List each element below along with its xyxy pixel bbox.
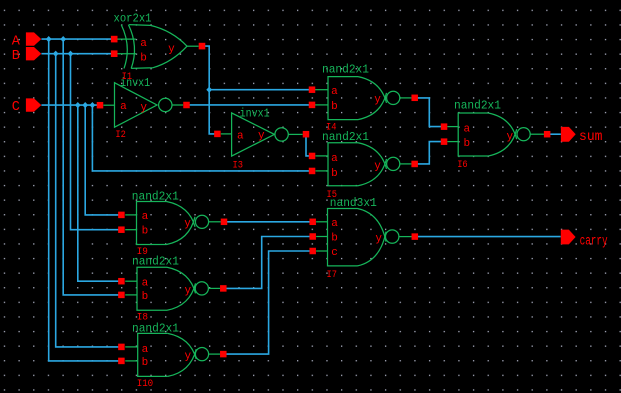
junction C branch 2	[82, 102, 88, 108]
svg-text:B: B	[12, 49, 20, 64]
svg-text:a: a	[331, 86, 338, 98]
svg-text:y: y	[507, 131, 514, 143]
pin square I7 c	[309, 248, 316, 255]
nand3 I7 input stub a	[316, 221, 327, 223]
nand2 I4 output stub	[400, 97, 412, 99]
svg-text:a: a	[140, 38, 147, 50]
inverter I3 output stub	[288, 133, 302, 135]
pin square I6 y	[544, 131, 551, 138]
pin square I8 a	[118, 278, 125, 285]
svg-text:y: y	[374, 94, 381, 106]
nand2 I6 output stub	[530, 133, 544, 135]
nand3 I7 bubble	[386, 230, 399, 243]
svg-text:invx1: invx1	[240, 106, 270, 120]
pin square xor b	[111, 50, 118, 57]
svg-text:y: y	[375, 233, 382, 245]
wire I3 output down to I5 pin a	[306, 134, 312, 156]
svg-text:b: b	[331, 168, 338, 180]
wire B to xor b	[41, 53, 114, 55]
wire xor output down to I3 input	[202, 46, 217, 134]
junction xor output branch	[206, 87, 212, 93]
nand2 I4 input stub b	[315, 104, 328, 106]
svg-text:a: a	[237, 131, 244, 143]
xor output stub	[187, 45, 199, 47]
junction A branch 2	[60, 36, 66, 42]
svg-text:I7: I7	[327, 269, 338, 281]
wire A branch down to I10 pin b	[49, 39, 122, 361]
input pin B	[26, 47, 41, 60]
svg-text:b: b	[331, 233, 338, 245]
svg-text:I3: I3	[233, 159, 244, 171]
pin square I2 in	[97, 102, 104, 109]
svg-text:I10: I10	[137, 378, 154, 390]
pin square I3 in	[214, 131, 221, 138]
inverter I2 bubble	[159, 98, 172, 111]
svg-text:y: y	[185, 350, 192, 362]
svg-text:a: a	[120, 101, 127, 113]
nand2 I5 input stub a	[316, 155, 329, 157]
nand2 gate I6 body	[458, 113, 488, 156]
svg-text:b: b	[142, 226, 149, 238]
svg-text:b: b	[142, 291, 149, 303]
pin square I8 y	[220, 285, 227, 292]
pin square I5 y	[411, 161, 418, 168]
output pin sum	[561, 127, 576, 142]
wire C branch down to I8 pin a	[78, 105, 122, 281]
svg-text:a: a	[142, 211, 149, 223]
pin square I10 b	[118, 358, 125, 365]
xor input stub b	[118, 53, 137, 55]
inverter I2 input stub	[103, 104, 114, 106]
wire C branch down to I9 pin a	[85, 105, 121, 215]
nand2 I5 bubble	[387, 157, 400, 170]
pin square I10 a	[118, 344, 125, 351]
nand2 gate I5 body	[328, 143, 358, 186]
svg-text:a: a	[331, 218, 338, 230]
junction B branch 1	[53, 51, 59, 57]
pin square I6 a	[441, 123, 448, 129]
pin square I9 a	[118, 212, 125, 219]
nand2 I10 input stub b	[125, 360, 138, 362]
nand2 I6 input stub a	[447, 126, 458, 128]
nand2 gate I9 body	[137, 202, 167, 245]
svg-text:I4: I4	[326, 122, 337, 134]
xor gate I1 body	[128, 25, 134, 69]
inverter I2 triangle	[115, 83, 158, 128]
pin square I7 y	[412, 233, 419, 240]
pin square I2 out	[183, 102, 190, 109]
svg-text:A: A	[12, 34, 21, 49]
xor input stub a	[118, 38, 136, 40]
svg-text:carry: carry	[580, 234, 608, 249]
input pin A	[26, 32, 41, 45]
svg-text:I1: I1	[122, 71, 133, 83]
wire I9 output to I7 pin a	[224, 221, 313, 223]
svg-text:I6: I6	[457, 159, 468, 171]
nand2 I4 input stub a	[315, 89, 328, 91]
inverter I3 bubble	[275, 128, 288, 141]
svg-text:a: a	[142, 344, 149, 356]
svg-text:y: y	[374, 161, 381, 173]
wire branch xor output to I4 pin a	[209, 89, 311, 91]
nand2 I5 input stub b	[316, 170, 329, 172]
wire B branch down to I9 pin b	[71, 54, 122, 230]
svg-text:I8: I8	[137, 311, 148, 323]
wire A to xor a	[41, 38, 114, 40]
svg-text:C: C	[12, 100, 20, 115]
nand2 gate I10 body	[138, 333, 168, 376]
svg-text:y: y	[168, 43, 175, 55]
inverter I2 output stub	[172, 104, 183, 106]
svg-text:b: b	[140, 53, 147, 65]
svg-text:nand2x1: nand2x1	[132, 322, 179, 336]
pin square I4 b	[309, 102, 316, 109]
nand3 I7 output stub	[399, 236, 412, 238]
svg-text:y: y	[185, 285, 192, 297]
nand2 gate I4 body	[328, 77, 358, 120]
nand3 gate I7 body	[328, 209, 358, 266]
pin square I4 y	[411, 95, 418, 102]
wire A branch down to I8 pin b	[63, 39, 121, 295]
junction B branch 2	[68, 51, 74, 57]
svg-text:a: a	[331, 153, 338, 165]
nand2 I8 bubble	[195, 282, 208, 295]
svg-text:I2: I2	[115, 129, 126, 141]
pin square I5 a	[309, 153, 316, 160]
wire I2 output to I4 pin b	[187, 104, 312, 106]
svg-text:c: c	[331, 247, 338, 259]
wire I10 output up to I7 pin c	[223, 251, 312, 354]
nand2 I8 input stub a	[125, 280, 137, 282]
pin square I6 b	[441, 138, 448, 145]
pin square I10 y	[220, 351, 227, 358]
svg-text:y: y	[184, 218, 191, 230]
nand2 I9 bubble	[195, 215, 208, 228]
svg-text:a: a	[142, 277, 149, 289]
svg-text:b: b	[331, 101, 338, 113]
wire I5 output to I6 pin b	[415, 142, 444, 164]
svg-text:a: a	[464, 124, 471, 136]
nand2 I9 input stub b	[125, 229, 136, 231]
wire C branch down to I5 pin b	[92, 105, 312, 171]
svg-text:xor2x1: xor2x1	[114, 11, 152, 25]
svg-text:I5: I5	[327, 189, 338, 201]
pin square I9 y	[221, 219, 228, 226]
svg-text:y: y	[258, 130, 265, 142]
pin square I7 a	[309, 219, 316, 226]
nand2 I10 bubble	[195, 348, 208, 361]
nand2 I6 bubble	[517, 128, 530, 141]
junction C branch 3	[90, 102, 96, 108]
nand2 I8 output stub	[208, 287, 220, 289]
inverter I3 input stub	[221, 133, 232, 135]
wire I8 output up to I7 pin b	[223, 237, 312, 289]
nand2 I5 output stub	[400, 163, 412, 165]
wire C to inverter I2 input	[41, 104, 100, 106]
svg-text:I9: I9	[137, 246, 148, 258]
svg-text:nand2x1: nand2x1	[454, 99, 501, 113]
svg-text:y: y	[140, 102, 147, 114]
wire I7 output to carry pin	[415, 236, 561, 238]
wire B branch down to I10 pin a	[56, 54, 122, 347]
junction C branch 1	[75, 102, 81, 108]
nand2 I9 output stub	[209, 221, 221, 223]
svg-text:sum: sum	[579, 130, 603, 145]
nand3 I7 input stub c	[316, 250, 327, 252]
pin square I7 b	[309, 233, 316, 240]
wire I4 output to I6 pin a	[415, 98, 444, 127]
pin square I9 b	[118, 226, 125, 233]
wire I6 output to sum pin	[547, 133, 561, 135]
output pin carry	[561, 230, 576, 245]
nand3 I7 input stub b	[316, 236, 327, 238]
svg-text:nand2x1: nand2x1	[322, 63, 369, 77]
nand2 I10 output stub	[209, 353, 221, 355]
pin square xor y	[199, 43, 206, 50]
svg-text:b: b	[142, 357, 149, 369]
nand2 I6 input stub b	[447, 141, 458, 143]
pin square I8 b	[118, 292, 125, 299]
pin square xor a	[111, 36, 118, 43]
nand2 I9 input stub a	[125, 214, 136, 216]
svg-text:nand2x1: nand2x1	[132, 190, 179, 204]
nand2 I4 bubble	[387, 91, 400, 104]
svg-text:b: b	[464, 138, 471, 150]
nand2 I8 input stub b	[125, 294, 137, 296]
input pin C	[26, 98, 41, 111]
pin square I4 a	[309, 86, 316, 93]
pin square I5 b	[309, 168, 316, 175]
nand2 gate I8 body	[137, 267, 167, 310]
pin square I3 out	[303, 131, 310, 138]
nand2 I10 input stub a	[125, 346, 138, 348]
junction A branch 1	[46, 36, 52, 42]
inverter I3 triangle	[232, 113, 275, 156]
